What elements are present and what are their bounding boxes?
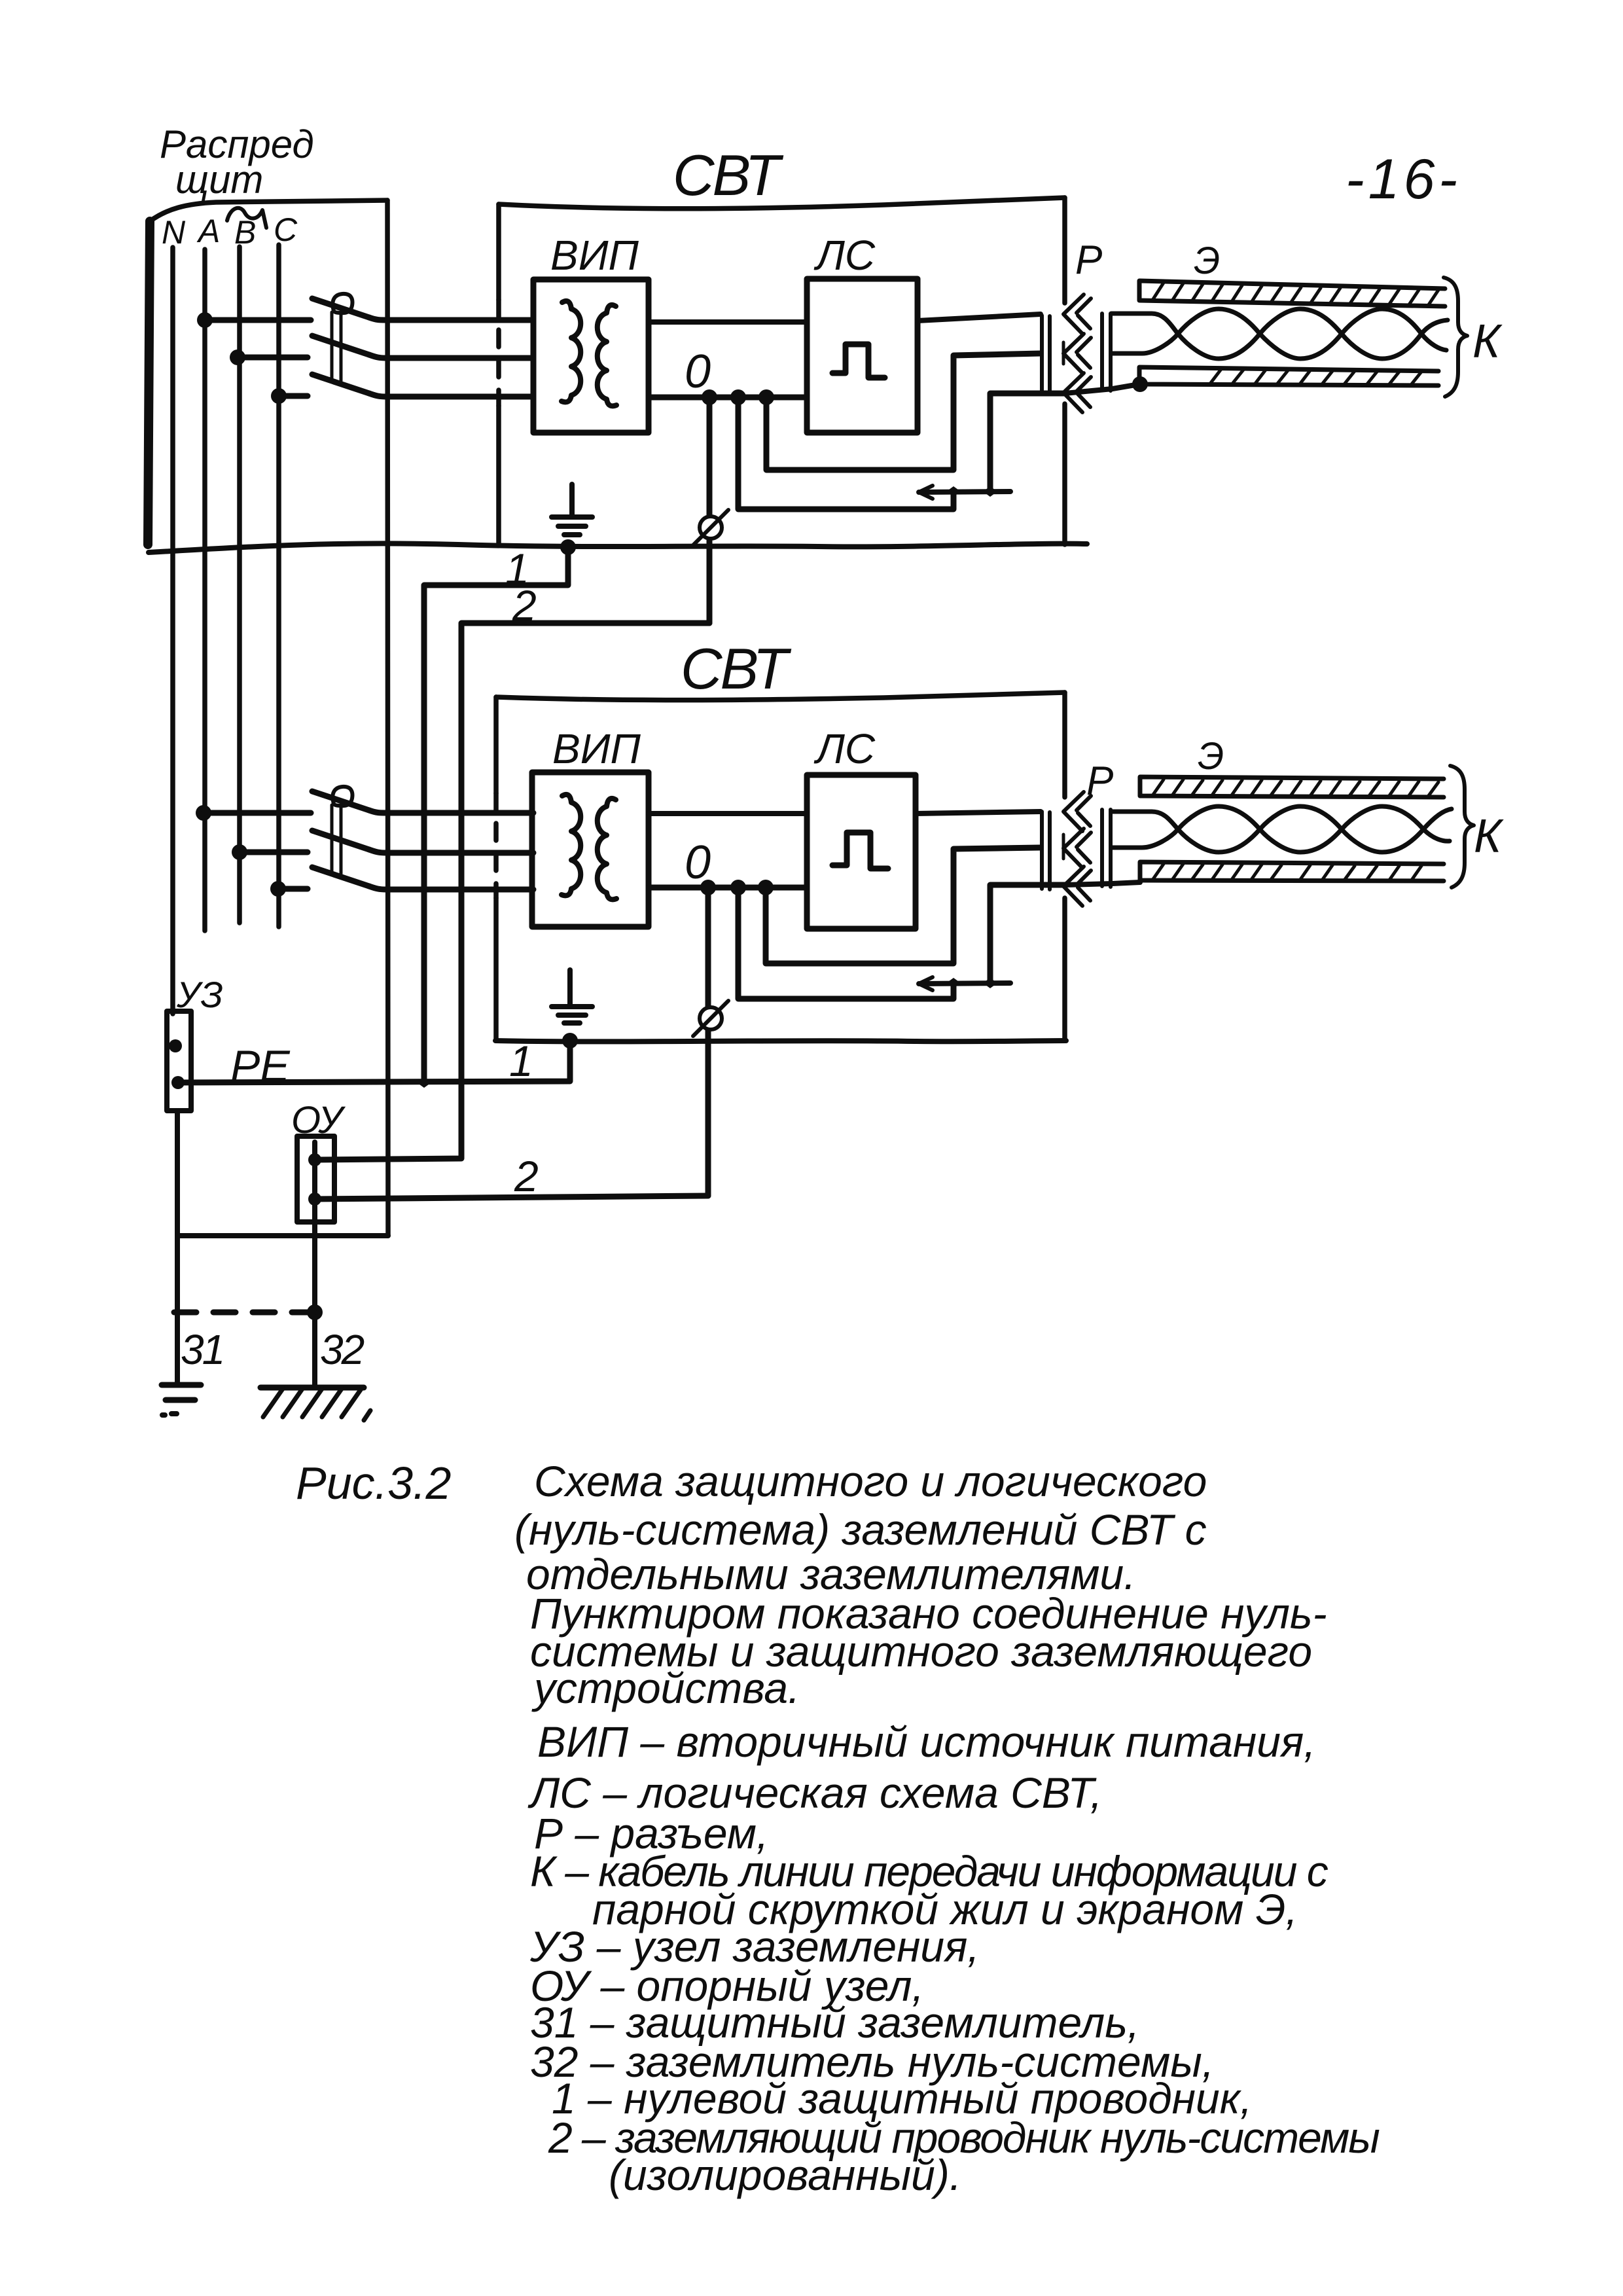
wire dot3 loop to pin2 unit2 (766, 848, 1041, 963)
VIP2 coil right (597, 798, 616, 899)
connector bars left unit1 (1042, 315, 1050, 393)
wire phase C1 to VIP (369, 393, 533, 397)
svg-text:щит: щит (175, 158, 263, 202)
dashed tie 31-32 (174, 1310, 315, 1316)
label LC2 (813, 725, 876, 772)
svg-text:Р: Р (1075, 238, 1102, 283)
shield bottom bar unit1 (1139, 367, 1438, 386)
label 2 unit1 (512, 581, 537, 630)
pin3 chevrons (1063, 373, 1091, 412)
label VIP1 (550, 232, 639, 279)
shield top hatch unit2 (1153, 780, 1438, 797)
node 0-bus dot1 (702, 389, 717, 405)
shield tie arrow line unit2 (919, 983, 1010, 984)
label CBT2 (681, 636, 791, 701)
switch QS2 handle square (332, 787, 352, 806)
wire tap B2 (240, 850, 308, 855)
label 0 unit2 (685, 836, 711, 889)
shield bottom hatch unit2 (1153, 864, 1421, 881)
CBT2 box right edge (1062, 692, 1067, 797)
svg-text:К: К (1474, 810, 1504, 863)
wire PE (178, 1041, 570, 1083)
wire УЗ to earth 31 (175, 1111, 180, 1385)
svg-text:A: A (196, 213, 220, 249)
svg-text:Э: Э (1198, 735, 1224, 778)
label CBT1 (673, 143, 783, 207)
twisted pair unit2 wire A (1111, 806, 1452, 852)
CBT2 box left edge (493, 697, 499, 793)
node tap C1 (271, 388, 287, 404)
CBT1 box top edge (499, 198, 1065, 209)
shield tie arrow line (919, 492, 1010, 492)
wire tap B1 (238, 355, 308, 361)
shield top bar unit2 (1140, 777, 1444, 797)
wire dot2 loop to shield unit2 (738, 888, 954, 999)
node tie junction 1 (946, 486, 961, 497)
node tie2 junction 2 (983, 978, 997, 988)
wire pin3 to shield unit2 (1065, 882, 1140, 885)
VIP1 coil left (562, 301, 580, 402)
label 1 unit1 (505, 545, 529, 593)
panel top edge (150, 200, 387, 221)
squiggle over top edge (227, 208, 266, 228)
wire 0-bus unit1 (649, 395, 807, 401)
panel right edge down to frame (387, 200, 388, 1236)
node tap B2 (232, 844, 247, 860)
svg-text:31: 31 (181, 1326, 223, 1373)
ground chassis symbol unit1 (569, 484, 575, 516)
label K1 (1472, 315, 1503, 368)
LC1 pulse symbol (832, 344, 885, 378)
node dot in УЗ (169, 1039, 182, 1052)
wire dot3 loop to pin2 (766, 353, 1041, 470)
svg-text:(нуль-система) заземлений СВТ: (нуль-система) заземлений СВТ с (514, 1505, 1207, 1554)
wire tap A1 (205, 317, 311, 323)
label ОУ (291, 1099, 346, 1141)
svg-text:Э: Э (1194, 240, 1220, 282)
switch QS1 handle square (332, 294, 352, 313)
brace K unit2 (1450, 766, 1474, 888)
insulated mark unit2 (700, 1007, 722, 1030)
label 2 unit2 (514, 1152, 539, 1200)
LC2 box (807, 775, 916, 929)
node chassis dot unit1 (560, 539, 576, 555)
node tap A2 (196, 805, 211, 821)
node 0-bus2 dot2 (730, 880, 746, 895)
wire phase A2 to VIP (369, 810, 533, 813)
bus A (202, 249, 207, 931)
svg-text:ЛС: ЛС (813, 725, 876, 772)
svg-text:К: К (1472, 315, 1503, 368)
label P2 (1086, 759, 1113, 804)
wire phase B2 to VIP (369, 850, 533, 853)
wire tie to pin3 unit2 (990, 885, 1065, 983)
node chassis dot unit2 (562, 1033, 578, 1049)
earth 32 symbol (260, 1385, 364, 1391)
label Э2 (1198, 735, 1224, 778)
CBT1 box left edge (dashed at wire crossings) (496, 204, 501, 300)
node tie junction 2 (983, 486, 997, 497)
svg-text:Схема защитного и логическог: Схема защитного и логического (534, 1457, 1207, 1505)
label Э1 (1194, 240, 1220, 282)
svg-text:СВТ: СВТ (681, 636, 791, 701)
label 1 unit2 (509, 1037, 533, 1085)
node 0-bus2 dot1 (700, 880, 716, 895)
label 0 unit1 (685, 346, 711, 398)
panel left edge (148, 221, 150, 545)
shield top bar unit1 (1139, 281, 1445, 306)
svg-text:32: 32 (320, 1326, 365, 1373)
reference node box ОУ (297, 1136, 334, 1222)
switch QS1 blade C (312, 374, 369, 393)
wire LC2 to pin1 (916, 812, 1041, 814)
node dot ОУ bottom (308, 1193, 321, 1206)
label Распред щит (160, 122, 314, 202)
node tap B1 (230, 350, 245, 365)
switch QS2 link bars (332, 805, 341, 874)
pin2 chevrons (1063, 334, 1091, 373)
earth 31 symbol (162, 1382, 201, 1388)
wire pin3 to shield (1065, 384, 1139, 393)
svg-text:2: 2 (514, 1152, 539, 1200)
label P1 (1075, 238, 1102, 283)
node 0-bus2 dot3 (758, 880, 774, 895)
svg-text:(изолированный).: (изолированный). (609, 2151, 961, 2199)
svg-text:ВИП – вторичный источник питан: ВИП – вторичный источник питания, (537, 1717, 1316, 1766)
wire dot1 down unit2 (705, 888, 711, 1196)
wire 2 unit1 (315, 623, 709, 1160)
shield bottom bar unit2 (1140, 862, 1444, 881)
svg-text:B: B (234, 214, 256, 251)
bus labels N A B C (162, 211, 298, 251)
page number (1346, 148, 1461, 211)
wire tap C1 (279, 393, 308, 399)
pin2 chevrons unit2 (1063, 829, 1091, 868)
label VIP2 (552, 725, 641, 772)
brace K unit1 (1444, 278, 1467, 397)
label 32 (320, 1326, 365, 1373)
CBT2 box bottom edge (495, 1041, 1066, 1041)
wire VIP1 to LC1 (649, 319, 807, 325)
wire ОУ internal (312, 1142, 317, 1222)
wire dot1 down through diameter symbol (707, 397, 713, 623)
svg-text:2: 2 (512, 581, 537, 630)
switch QS2 blade B (312, 831, 369, 850)
wire tie to pin3 (990, 393, 1065, 492)
node dot УЗ-PE (171, 1076, 185, 1089)
twisted pair unit2 wire B (1111, 806, 1450, 852)
CBT2 box top edge (496, 692, 1065, 700)
VIP2 coil left (562, 795, 580, 895)
label УЗ (176, 974, 223, 1015)
label 31 (181, 1326, 223, 1373)
twisted pair unit1 wire B (1111, 309, 1446, 359)
VIP1 box (533, 279, 649, 433)
svg-text:ВИП: ВИП (550, 232, 639, 279)
bus C (276, 245, 281, 927)
node shield dot unit1 (1132, 376, 1148, 392)
wire phase A1 to VIP (369, 317, 533, 320)
VIP1 coil right (597, 305, 616, 406)
connector bars right unit2 (1102, 810, 1111, 887)
shield bottom hatch unit1 (1211, 369, 1421, 385)
node dot ОУ top (308, 1153, 321, 1166)
switch QS2 blade A (312, 791, 369, 810)
node tie2 junction 1 (946, 978, 961, 988)
LC1 box (807, 279, 918, 433)
pin3 chevrons unit2 (1063, 867, 1091, 906)
earth 32 hatch (263, 1389, 370, 1420)
node PE junction wire1 (417, 1077, 431, 1088)
switch QS1 blade B (312, 336, 369, 355)
wire tap A2 (204, 810, 311, 816)
label K2 (1474, 810, 1504, 863)
wire phase B1 to VIP (369, 355, 533, 358)
node tap C2 (270, 881, 286, 897)
connector bars left unit2 (1042, 812, 1050, 889)
svg-text:ВИП: ВИП (552, 725, 641, 772)
wire 1 unit1 (424, 547, 568, 1083)
node tap A1 (197, 312, 213, 328)
wire 2 unit2 (315, 1196, 708, 1199)
insulated mark unit1 (700, 516, 722, 539)
node 0-bus dot2 (730, 389, 746, 405)
wire VIP2 to LC2 (649, 811, 807, 816)
earthing node box УЗ (167, 1011, 191, 1111)
switch QS2 blade C (312, 867, 369, 886)
svg-text:1: 1 (509, 1037, 533, 1085)
frame line bottom (177, 1233, 388, 1238)
label LC1 (813, 232, 876, 279)
wire 0-bus unit2 (649, 885, 807, 891)
bus N (170, 247, 175, 1014)
wire LC1 to pin1 (918, 314, 1041, 321)
wire dot2 loop to shield (738, 397, 954, 509)
svg-text:C: C (274, 211, 298, 248)
connector bars right unit1 (1102, 314, 1111, 391)
wire tap C2 (278, 886, 308, 892)
pin1 chevrons (1063, 295, 1091, 334)
wire phase C2 to VIP (369, 886, 533, 889)
svg-text:N: N (162, 214, 186, 251)
svg-text:-16-: -16- (1346, 148, 1461, 211)
svg-text:устройства.: устройства. (531, 1664, 800, 1712)
CBT1 box right edge (broken at connector) (1062, 198, 1067, 303)
bus B (237, 247, 242, 923)
switch QS1 blade A (312, 298, 369, 317)
twisted pair unit1 wire A (1111, 309, 1448, 359)
LC2 pulse symbol (832, 833, 888, 869)
node dashed junction (307, 1304, 323, 1320)
VIP2 box (532, 772, 649, 927)
node 0-bus dot3 (758, 389, 774, 405)
svg-text:ЛС: ЛС (813, 232, 876, 279)
svg-text:Рис.3.2: Рис.3.2 (296, 1458, 451, 1509)
pin1 chevrons unit2 (1063, 792, 1091, 831)
label PE (230, 1041, 290, 1091)
panel + CBT1 bottom wavy line (149, 543, 1087, 552)
wire ОУ to earth 32 (312, 1222, 317, 1388)
switch QS1 link bars (332, 312, 341, 381)
ground chassis symbol unit2 (567, 970, 573, 1006)
shield top hatch unit1 (1153, 283, 1438, 306)
svg-text:СВТ: СВТ (673, 143, 783, 207)
